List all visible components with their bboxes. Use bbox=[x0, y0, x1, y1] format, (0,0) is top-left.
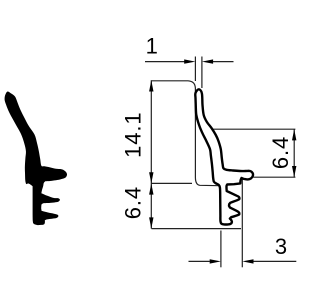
dimension line 1 (top) bbox=[145, 59, 234, 63]
svg-text:1: 1 bbox=[146, 34, 158, 59]
frame contour (thin background line, rounded step) bbox=[152, 81, 220, 186]
svg-text:3: 3 bbox=[275, 234, 287, 259]
seal profile outline (thick) bbox=[195, 89, 253, 224]
extension line for dim 1 (left) bbox=[194, 57, 196, 82]
svg-text:6.4: 6.4 bbox=[268, 136, 293, 169]
left black silhouette bbox=[5, 92, 67, 226]
right 6.4 dimension bbox=[212, 129, 296, 177]
bottom 3 dimension bbox=[189, 180, 297, 268]
extension line for dim 1 (right) bbox=[201, 57, 203, 89]
svg-text:14.1: 14.1 bbox=[121, 111, 146, 157]
extension line at y=183.4 bbox=[152, 182, 193, 184]
left dimension line (14.1 / 6.4) bbox=[149, 80, 153, 228]
svg-text:6.4: 6.4 bbox=[120, 186, 145, 219]
extension line at y=228.6 (foot bottom level) bbox=[152, 228, 242, 230]
